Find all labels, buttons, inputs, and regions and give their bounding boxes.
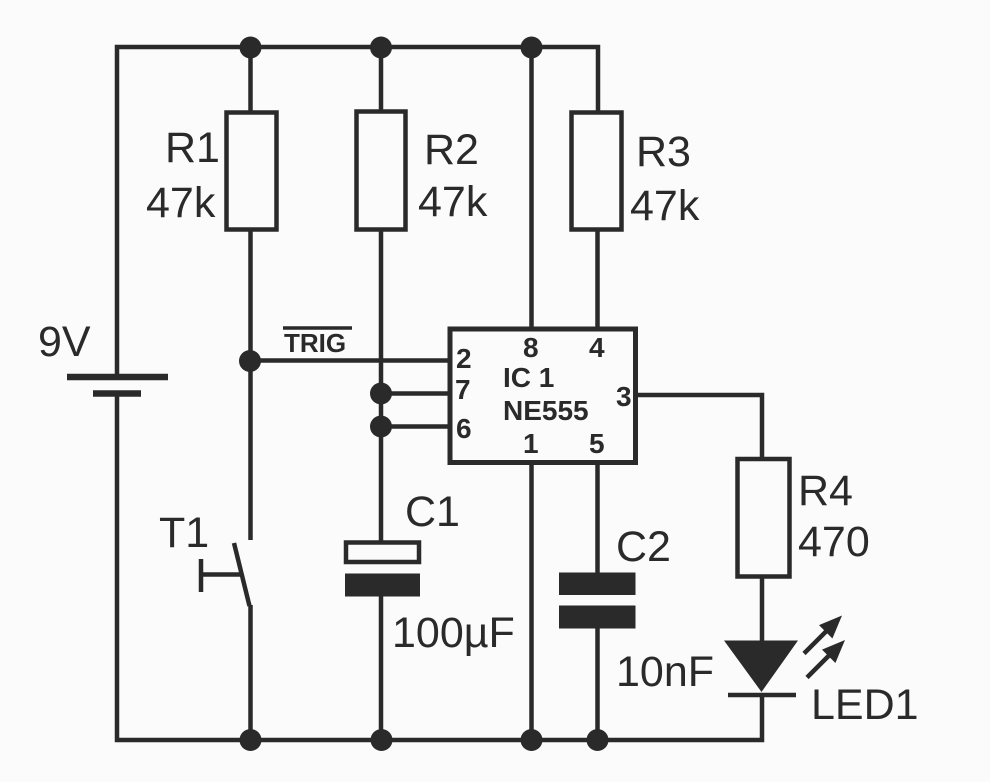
resistor R1: [227, 113, 277, 230]
node dot bottom pin1: [521, 729, 543, 751]
svg-text:470: 470: [798, 518, 870, 566]
wire pin1: [529, 464, 534, 740]
svg-text:R1: R1: [165, 124, 220, 172]
node dot pin7 junction: [370, 383, 392, 405]
wire R4 to LED: [760, 576, 765, 642]
LED1 arrow 2: [807, 640, 845, 678]
resistor R4: [738, 459, 790, 577]
switch T1 blade: [234, 543, 250, 606]
svg-text:TRIG: TRIG: [284, 328, 346, 358]
svg-text:4: 4: [589, 332, 605, 363]
wire C1 bottom: [379, 596, 384, 740]
wire pin8: [529, 47, 534, 327]
wire TRIG pin2: [249, 358, 448, 363]
node dot pin6 junction: [370, 416, 392, 438]
svg-text:47k: 47k: [630, 182, 700, 230]
node dot bottom T1: [240, 729, 262, 751]
svg-text:C2: C2: [616, 523, 671, 571]
svg-text:2: 2: [456, 343, 472, 374]
capacitor C1 bottom plate (filled): [345, 574, 420, 597]
wire pin6 stub: [381, 424, 448, 429]
node dot top R1: [240, 37, 262, 59]
wire R1 top: [248, 47, 253, 113]
svg-text:IC 1: IC 1: [503, 362, 554, 393]
svg-text:NE555: NE555: [503, 395, 589, 426]
svg-text:R4: R4: [798, 467, 853, 515]
wire T1 lower contact: [248, 605, 253, 740]
node TRIG overline: [283, 326, 352, 330]
svg-text:C1: C1: [405, 488, 460, 536]
svg-text:LED1: LED1: [811, 681, 919, 729]
node dot TRIG junction: [239, 350, 261, 372]
LED1 triangle: [724, 641, 798, 693]
svg-text:5: 5: [589, 428, 605, 459]
node dot top R2: [370, 37, 392, 59]
wire R2 top: [379, 47, 384, 112]
wire left lower / bottom rail: [117, 396, 762, 740]
svg-text:9V: 9V: [38, 318, 91, 366]
wire pin5 to C2: [595, 464, 600, 574]
svg-text:8: 8: [523, 332, 539, 363]
svg-text:47k: 47k: [418, 178, 488, 226]
wire pin7 stub: [381, 391, 448, 396]
switch T1 button bar: [199, 559, 204, 592]
svg-text:100µF: 100µF: [392, 609, 515, 657]
capacitor C1 top plate (hollow): [346, 543, 419, 563]
wire C2 bottom: [595, 628, 600, 740]
wire top rail: [117, 47, 598, 374]
capacitor C2 bottom plate: [559, 606, 636, 629]
wire R1 bottom to switch: [248, 229, 253, 540]
svg-text:6: 6: [456, 413, 472, 444]
svg-text:1: 1: [523, 428, 539, 459]
op-amp U1 IC box NE555: [450, 329, 636, 463]
LED1 arrow 1: [804, 616, 842, 654]
LED1 cathode bar: [728, 693, 796, 698]
wire R2 bottom to C1: [379, 229, 384, 543]
wire pin3 to R4: [636, 395, 762, 460]
node dot bottom C1: [371, 729, 393, 751]
battery 9V long plate: [67, 374, 168, 381]
wire R3 bottom to pin4: [595, 229, 600, 327]
node dot bottom C2: [587, 729, 609, 751]
svg-text:R3: R3: [636, 128, 691, 176]
svg-text:47k: 47k: [146, 179, 216, 227]
svg-text:R2: R2: [424, 126, 479, 174]
capacitor C2 top plate: [559, 573, 636, 596]
resistor R3: [572, 113, 622, 230]
switch T1 actuator bar: [202, 572, 242, 577]
battery 9V short plate: [93, 390, 141, 397]
node dot top pin8: [521, 37, 543, 59]
svg-text:10nF: 10nF: [616, 648, 714, 696]
resistor R2: [357, 112, 406, 230]
svg-text:T1: T1: [159, 509, 209, 557]
svg-text:7: 7: [455, 374, 471, 405]
svg-text:3: 3: [616, 381, 632, 412]
